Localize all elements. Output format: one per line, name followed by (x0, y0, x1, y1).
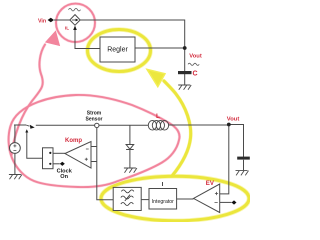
svg-text:On: On (60, 174, 68, 180)
svg-text:Komp: Komp (65, 138, 82, 144)
svg-text:Vout: Vout (189, 53, 202, 59)
svg-text:Vin: Vin (38, 18, 46, 24)
svg-text:Regler: Regler (107, 47, 128, 54)
svg-text:Vout: Vout (227, 116, 240, 122)
svg-text:L: L (156, 113, 160, 120)
svg-text:Integrator: Integrator (152, 199, 174, 205)
svg-text:EV: EV (206, 180, 215, 187)
svg-text:IL: IL (65, 26, 69, 31)
svg-text:C: C (193, 70, 198, 77)
svg-text:Sensor: Sensor (86, 117, 103, 123)
